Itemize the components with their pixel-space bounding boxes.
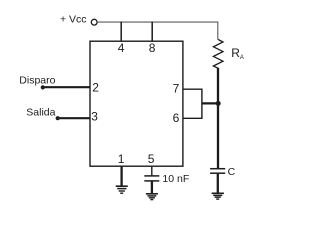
svg-text:7: 7 <box>173 82 180 96</box>
svg-text:1: 1 <box>118 152 125 166</box>
node junction <box>216 101 221 106</box>
svg-text:C: C <box>228 166 236 178</box>
svg-text:+ Vcc: + Vcc <box>60 14 87 26</box>
capacitor 10nF <box>144 175 159 177</box>
wire pin 2 <box>43 86 91 88</box>
wire pin 3 <box>58 117 91 119</box>
wire pin 5 lead <box>151 166 153 175</box>
ground below C <box>212 193 224 199</box>
svg-text:6: 6 <box>173 111 180 125</box>
wire capacitor C to ground <box>217 174 219 193</box>
wire pin 6 <box>183 117 203 119</box>
wire resistor to capacitor C <box>217 68 219 168</box>
wire stub to node <box>202 102 218 104</box>
svg-text:10 nF: 10 nF <box>162 173 189 185</box>
svg-text:Disparo: Disparo <box>19 75 55 87</box>
wire pin 1 lead <box>120 166 122 186</box>
wire 10nF to ground <box>151 182 153 194</box>
wire bracket 7-6 <box>201 89 203 120</box>
capacitor C <box>210 168 225 170</box>
resistor Ra <box>213 40 223 69</box>
svg-text:2: 2 <box>92 81 99 95</box>
wire pin 8 lead <box>151 22 153 41</box>
wire Vcc top rail <box>97 22 218 40</box>
wire pin 7 <box>183 88 203 90</box>
svg-text:RA: RA <box>231 46 244 61</box>
node Salida <box>56 116 60 120</box>
svg-text:5: 5 <box>148 152 155 166</box>
node Disparo <box>41 85 45 89</box>
svg-text:8: 8 <box>149 41 156 55</box>
svg-text:Salida: Salida <box>26 106 55 118</box>
op-amp U1 555 timer body <box>90 41 183 166</box>
ground pin 1 <box>116 186 128 193</box>
terminal Vcc <box>91 19 97 25</box>
ground below 10nF <box>146 194 158 200</box>
svg-text:4: 4 <box>118 41 125 55</box>
wire pin 4 lead <box>120 22 122 41</box>
svg-text:3: 3 <box>91 110 98 124</box>
